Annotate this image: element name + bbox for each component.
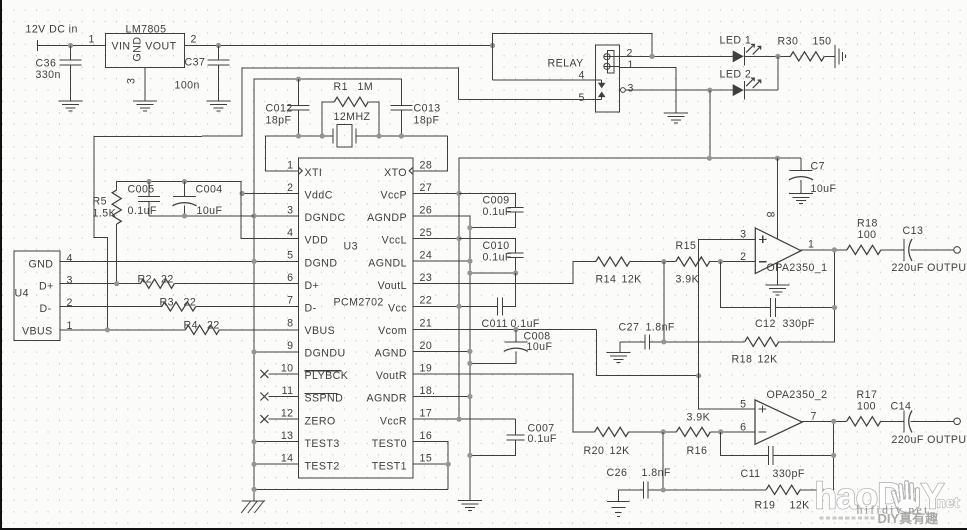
svg-text:13: 13 <box>281 430 294 442</box>
junction LED2/5V rail <box>707 88 712 93</box>
wire VccR pin17 to C007 <box>413 418 516 420</box>
chassis ground DGND <box>241 501 265 513</box>
wire relay pin5 to VBUS <box>94 68 459 330</box>
junction C010/C011 <box>513 270 518 275</box>
wire junction to C26/R19 <box>662 432 664 490</box>
svg-text:R15: R15 <box>676 240 697 252</box>
wire C13 to output terminal <box>911 249 954 251</box>
svg-text:LED 2: LED 2 <box>720 69 752 81</box>
ground opamp1 <box>765 285 789 295</box>
wire opamp1 gnd <box>776 262 778 285</box>
svg-text:RELAY: RELAY <box>548 58 584 70</box>
svg-text:LM7805: LM7805 <box>126 24 167 36</box>
svg-text:17: 17 <box>420 408 433 420</box>
svg-text:26: 26 <box>420 204 433 216</box>
ground C27 <box>607 353 631 363</box>
wire C005/C004 bottom to DGNDC <box>149 215 254 217</box>
resistor R15 3.9K <box>676 240 710 286</box>
svg-text:D+: D+ <box>39 281 54 293</box>
resistor R3 22 <box>160 297 197 312</box>
power input terminal 12V DC in <box>26 24 78 52</box>
junction 12V/C36 <box>68 43 73 48</box>
junction TEST2 <box>252 462 257 467</box>
wire LED1 to R30 <box>744 55 790 57</box>
connector U4 USB <box>14 251 73 340</box>
wire TEST3 pin13 <box>254 441 298 443</box>
no-connect ZERO pin12 <box>260 415 298 423</box>
svg-text:330pF: 330pF <box>783 318 815 330</box>
capacitor C11 330pF <box>741 446 805 480</box>
wire crystal rail right <box>356 135 447 137</box>
no-connect SSPND pin11 <box>260 393 298 401</box>
svg-text:C009: C009 <box>483 195 510 207</box>
wire relay pin1 to ground <box>619 67 676 112</box>
svg-text:C27: C27 <box>619 322 640 334</box>
svg-text:C13: C13 <box>903 225 924 237</box>
wire Vcom to opamp2 +in <box>699 376 755 409</box>
svg-text:1.8nF: 1.8nF <box>646 322 675 334</box>
svg-text:VBUS: VBUS <box>22 326 53 338</box>
resistor R18 12K feedback <box>732 337 779 365</box>
svg-text:150: 150 <box>813 36 832 48</box>
svg-text:22: 22 <box>184 297 197 309</box>
wire relay pin2 to LED1 <box>619 55 732 57</box>
wire AGNDP pin26 / AGND rail <box>413 216 470 500</box>
svg-text:330n: 330n <box>36 69 61 81</box>
svg-text:12V DC in: 12V DC in <box>26 24 78 36</box>
junction TEST3 <box>252 439 257 444</box>
junction AGND rail/C010 <box>467 270 472 275</box>
junction 5V/relay <box>490 43 495 48</box>
svg-text:7: 7 <box>287 295 293 307</box>
wire AGND pin20 <box>413 350 470 352</box>
wire Vcc rail horizontal <box>459 157 801 159</box>
svg-text:0.1uF: 0.1uF <box>528 433 557 445</box>
resistor R16 3.9K <box>676 412 710 458</box>
junction R5/D+ <box>114 281 119 286</box>
svg-text:100: 100 <box>857 401 876 413</box>
wire -in to C11 <box>721 432 769 456</box>
wire Vcom pin21 <box>413 328 596 330</box>
junction R20/R16/C26 <box>661 429 666 434</box>
ground C26 <box>607 501 629 516</box>
capacitor C010 0.1uF <box>459 239 524 274</box>
op-amp U2B OPA2350_2 <box>740 389 827 444</box>
capacitor C004 10uF <box>173 182 223 218</box>
svg-text:C12: C12 <box>755 318 776 330</box>
svg-text:3: 3 <box>287 204 293 216</box>
svg-text:R17: R17 <box>857 389 878 401</box>
wire DGND to TEST loop <box>254 488 448 490</box>
svg-text:4: 4 <box>67 253 73 265</box>
svg-text:1: 1 <box>89 34 95 46</box>
resistor R18 100 <box>847 218 881 255</box>
wire VddC pin2 <box>242 193 298 195</box>
svg-text:PLYBCK: PLYBCK <box>305 370 349 382</box>
svg-text:TEST3: TEST3 <box>305 438 340 450</box>
svg-text:6: 6 <box>287 272 293 284</box>
wire crystal to XTO <box>413 136 447 171</box>
wire R18 to output <box>779 250 835 342</box>
wire LED2 to junction <box>744 56 778 90</box>
capacitor C12 330pF <box>755 298 815 330</box>
svg-text:3: 3 <box>126 78 138 84</box>
wire AGNDR pin18 <box>413 396 470 398</box>
svg-text:2: 2 <box>191 34 197 46</box>
svg-text:R5: R5 <box>93 196 107 208</box>
ground C37 <box>207 101 231 111</box>
wire R4 to pin8 <box>219 329 298 331</box>
svg-text:220uF OUTPUT: 220uF OUTPUT <box>892 434 967 446</box>
wire U4 D+ to R2 <box>60 283 140 285</box>
junction R1 right <box>376 133 381 138</box>
svg-text:D+: D+ <box>305 280 320 292</box>
wire LED2 junction to Vcc rail <box>709 90 711 158</box>
svg-text:1.8nF: 1.8nF <box>642 467 671 479</box>
svg-text:3: 3 <box>67 275 73 287</box>
svg-text:VoutL: VoutL <box>378 280 407 292</box>
junction Vcc pin22 <box>456 304 461 309</box>
resistor R1 1M <box>322 81 379 136</box>
svg-text:R3: R3 <box>160 297 174 309</box>
svg-text:5: 5 <box>740 399 746 411</box>
output terminal L <box>954 247 961 254</box>
svg-text:R14: R14 <box>596 274 617 286</box>
crystal 12MHZ <box>333 111 371 147</box>
svg-text:VddC: VddC <box>305 190 333 202</box>
svg-text:1.5K: 1.5K <box>93 208 117 220</box>
svg-text:7: 7 <box>811 411 817 423</box>
svg-text:VIN: VIN <box>112 41 131 53</box>
svg-text:R18: R18 <box>732 354 753 366</box>
svg-text:VccP: VccP <box>380 190 407 202</box>
junction C013 bottom <box>399 133 404 138</box>
svg-text:C37: C37 <box>185 57 206 69</box>
svg-text:11: 11 <box>282 385 294 397</box>
ground LM7805 <box>133 101 157 111</box>
wire VccP pin27 <box>413 192 459 194</box>
wire TEST2 pin14 <box>254 463 298 465</box>
wire VccL pin25 <box>413 238 459 240</box>
wire Vcom to opamp1 +in <box>699 239 756 375</box>
capacitor C13 220uF <box>892 225 967 274</box>
svg-text:22: 22 <box>420 295 433 307</box>
junction Vcom split <box>696 373 701 378</box>
junction VccP <box>456 191 461 196</box>
svg-text:OPA2350_2: OPA2350_2 <box>767 389 828 401</box>
svg-text:DGNDU: DGNDU <box>305 348 346 360</box>
svg-text:2: 2 <box>67 297 73 309</box>
wire U4 VBUS to R4 <box>60 329 185 331</box>
resistor R14 12K <box>573 257 642 286</box>
svg-text:1: 1 <box>808 239 814 251</box>
junction AGNDL <box>467 259 472 264</box>
junction relay pin2 <box>650 54 655 59</box>
svg-text:DGNDC: DGNDC <box>305 212 346 224</box>
junction DGNDC <box>252 213 257 218</box>
capacitor C008 10uF <box>470 329 553 363</box>
wire R20 to R16 <box>629 431 677 433</box>
wire crystal to XTI <box>265 136 298 171</box>
svg-text:C005: C005 <box>128 184 155 196</box>
ground C36 <box>59 101 83 111</box>
junction C012 bottom <box>296 133 301 138</box>
svg-text:AGNDP: AGNDP <box>367 212 407 224</box>
junction Vcom/C008 <box>513 327 518 332</box>
svg-text:Vcom: Vcom <box>378 325 407 337</box>
svg-text:C36: C36 <box>36 58 57 70</box>
wire R15 to opamp1 -in <box>710 261 756 263</box>
resistor R4 22 <box>184 320 220 335</box>
svg-text:AGNDL: AGNDL <box>368 257 407 269</box>
svg-text:AGND: AGND <box>375 348 407 360</box>
wire DGNDU pin9 <box>254 351 298 353</box>
ground relay <box>664 113 688 123</box>
wire VDD rail <box>117 182 299 239</box>
svg-text:DIY真有趣: DIY真有趣 <box>878 511 940 526</box>
svg-text:1: 1 <box>287 159 293 171</box>
junction output L <box>832 247 837 252</box>
resistor R30 150 <box>778 36 835 62</box>
junction C007/AGND rail <box>467 453 472 458</box>
svg-text:R19: R19 <box>755 500 776 512</box>
svg-text:12K: 12K <box>610 445 630 457</box>
wire DGND rail <box>253 79 255 501</box>
svg-text:R4: R4 <box>184 320 198 332</box>
wire VoutR pin19 to R20 <box>413 374 595 432</box>
wire Vcom branch <box>596 329 698 375</box>
svg-text:220uF OUTPUT: 220uF OUTPUT <box>892 262 967 274</box>
svg-text:VoutR: VoutR <box>376 370 407 382</box>
wire R14 to R15 <box>630 261 676 263</box>
junction 5V/C37 <box>216 43 221 48</box>
wire 5V over relay to LED1 <box>493 34 653 57</box>
svg-text:12K: 12K <box>790 500 810 512</box>
wire Vcc rail vertical <box>458 158 460 419</box>
capacitor C013 18pF <box>390 79 440 136</box>
wire junction to C27/R18 <box>663 262 665 342</box>
svg-text:8: 8 <box>287 317 293 329</box>
svg-text:5: 5 <box>579 92 585 104</box>
svg-text:12: 12 <box>281 408 294 420</box>
svg-text:22: 22 <box>161 274 174 286</box>
junction C009/AGND rail <box>467 225 472 230</box>
wire opamp1 pin8 power <box>776 158 778 239</box>
wire VOUT 5V rail <box>185 45 493 47</box>
junction C004 top <box>182 179 187 184</box>
svg-text:18pF: 18pF <box>266 114 292 126</box>
wire C010 bottom to AGND rail <box>470 272 516 274</box>
svg-text:net: net <box>937 495 960 512</box>
svg-text:TEST0: TEST0 <box>372 438 407 450</box>
wire crystal rail left <box>265 135 333 137</box>
svg-text:U4: U4 <box>15 288 29 300</box>
svg-text:ZERO: ZERO <box>305 415 336 427</box>
svg-text:12MHZ: 12MHZ <box>334 111 371 123</box>
wire C011 to AGND <box>502 273 515 306</box>
svg-text:TEST2: TEST2 <box>305 460 340 472</box>
wire R19 to output <box>800 421 834 490</box>
svg-text:16: 16 <box>420 430 433 442</box>
resistor R19 12K feedback <box>755 485 810 511</box>
svg-text:27: 27 <box>420 182 433 194</box>
ground C7 <box>789 194 813 204</box>
svg-text:10uF: 10uF <box>527 341 553 353</box>
junction LED1/LED2 <box>775 54 780 59</box>
wire R3 to pin7 <box>196 306 299 308</box>
svg-text:VDD: VDD <box>305 235 329 247</box>
wire -in to C12 <box>720 262 770 308</box>
wire relay pin3 to LED2 <box>625 89 732 91</box>
svg-text:C14: C14 <box>891 401 912 413</box>
svg-text:1: 1 <box>628 59 634 71</box>
capacitor C7 10uF <box>789 158 837 195</box>
svg-text:SSPND: SSPND <box>305 393 344 405</box>
wire C14 to output terminal <box>911 420 954 422</box>
junction R14/R15/C27 <box>661 259 666 264</box>
svg-text:10uF: 10uF <box>197 205 223 217</box>
junction C008/AGND rail <box>467 361 472 366</box>
svg-text:R1: R1 <box>334 81 348 93</box>
wire U4 D- to R3 <box>60 306 162 308</box>
svg-text:GND: GND <box>132 37 144 62</box>
svg-text:21: 21 <box>420 317 433 329</box>
junction Vcc rail/LED <box>707 156 712 161</box>
svg-text:C010: C010 <box>483 240 510 252</box>
junction C012 top <box>296 77 301 82</box>
svg-text:18pF: 18pF <box>414 114 440 126</box>
svg-text:8: 8 <box>764 212 776 218</box>
svg-text:VccL: VccL <box>382 235 407 247</box>
output terminal R <box>954 418 961 425</box>
svg-text:330pF: 330pF <box>773 468 805 480</box>
junction DGNDU <box>252 349 257 354</box>
svg-text:3.9K: 3.9K <box>687 412 711 424</box>
svg-text:15: 15 <box>420 453 433 465</box>
junction output R <box>831 419 836 424</box>
capacitor C005 0.1uF <box>128 182 161 218</box>
wire opamp1 output pin1 <box>801 239 847 251</box>
svg-text:20: 20 <box>420 340 433 352</box>
watermark haoDIY.net <box>815 476 960 527</box>
svg-text:GND: GND <box>29 259 54 271</box>
regulator LM7805 <box>89 24 197 85</box>
svg-text:10: 10 <box>281 362 294 374</box>
svg-text:PCM2702: PCM2702 <box>334 297 384 309</box>
junction R1 left <box>320 133 325 138</box>
svg-text:Vcc: Vcc <box>388 302 407 314</box>
junction Vcc rail/opamp <box>775 156 780 161</box>
svg-text:19: 19 <box>420 362 433 374</box>
wire 5V to relay pin 4 <box>493 46 596 80</box>
wire Vcc pin22 to C011 <box>413 305 498 307</box>
svg-text:LED 1: LED 1 <box>720 35 752 47</box>
svg-text:D-: D- <box>305 302 317 314</box>
svg-text:C011: C011 <box>482 318 508 330</box>
wire TEST0 pin16 loop <box>413 442 448 490</box>
svg-text:TEST1: TEST1 <box>372 460 407 472</box>
junction C11/output leg <box>831 453 836 458</box>
junction AGND pin20 <box>467 349 472 354</box>
svg-text:C004: C004 <box>196 184 223 196</box>
ground R30 sideways <box>835 45 846 68</box>
op-amp U2A OPA2350_1 <box>740 212 827 274</box>
wire LM7805 pin3 to ground <box>144 68 146 102</box>
svg-text:VOUT: VOUT <box>145 41 176 53</box>
junction VddC <box>240 191 245 196</box>
svg-text:6: 6 <box>740 422 746 434</box>
svg-text:C11: C11 <box>741 468 761 480</box>
no-connect PLYBCK pin10 <box>260 370 298 378</box>
svg-text:R30: R30 <box>778 36 799 48</box>
svg-text:100n: 100n <box>175 80 200 92</box>
svg-text:AGNDR: AGNDR <box>366 393 407 405</box>
svg-text:1M: 1M <box>358 81 374 93</box>
wire C12 to output leg <box>775 307 834 309</box>
wire R18 to C13 <box>881 249 904 251</box>
svg-text:D-: D- <box>40 303 52 315</box>
resistor R2 22 <box>138 274 175 289</box>
capacitor C37 100n <box>175 46 230 102</box>
junction VccR/Vcc rail <box>456 417 461 422</box>
svg-text:VccR: VccR <box>380 415 407 427</box>
wire C11 to output leg <box>773 454 834 456</box>
svg-text:XTO: XTO <box>384 167 407 179</box>
svg-text:DGND: DGND <box>305 257 338 269</box>
junction C004 bottom <box>182 213 187 218</box>
wire opamp2 output pin7 <box>802 411 847 423</box>
resistor R20 12K <box>584 427 630 457</box>
resistor R5 1.5K <box>93 182 122 284</box>
svg-text:4: 4 <box>579 70 585 82</box>
capacitor C36 330n <box>36 46 82 102</box>
svg-text:C012: C012 <box>266 103 293 115</box>
junction DGND pin5 <box>252 259 257 264</box>
svg-text:0.1uF: 0.1uF <box>483 252 512 264</box>
capacitor C009 0.1uF <box>459 193 524 227</box>
svg-text:OPA2350_1: OPA2350_1 <box>767 262 828 274</box>
junction DGND bottom <box>252 487 257 492</box>
relay RELAY <box>548 45 634 112</box>
wire DGNDC pin3 <box>254 215 298 217</box>
wire crystal ground rail <box>254 78 401 80</box>
LED2 <box>720 69 761 100</box>
junction feedback op1 <box>718 259 723 264</box>
svg-text:4: 4 <box>287 227 293 239</box>
capacitor C14 220uF <box>891 401 967 447</box>
svg-text:18.: 18. <box>420 385 436 397</box>
svg-text:R18: R18 <box>857 218 878 230</box>
wire relay pin 5 <box>459 98 596 100</box>
svg-text:2: 2 <box>740 251 746 263</box>
resistor R17 100 <box>847 389 881 426</box>
wire AGNDL pin24 <box>413 260 470 262</box>
svg-text:3: 3 <box>740 229 746 241</box>
junction VccL <box>456 236 461 241</box>
svg-text:12K: 12K <box>622 274 642 286</box>
capacitor C011 0.1uF <box>482 297 540 330</box>
svg-text:2: 2 <box>287 182 293 194</box>
junction C27/R18 12K <box>661 339 666 344</box>
junction C005 top <box>146 179 151 184</box>
wire R16 to opamp2 -in <box>710 431 755 433</box>
svg-text:0.1uF: 0.1uF <box>483 206 512 218</box>
svg-text:23: 23 <box>420 272 433 284</box>
svg-text:5: 5 <box>287 250 293 262</box>
junction AGNDR <box>467 394 472 399</box>
svg-text:XTI: XTI <box>305 167 323 179</box>
svg-text:C013: C013 <box>414 103 441 115</box>
